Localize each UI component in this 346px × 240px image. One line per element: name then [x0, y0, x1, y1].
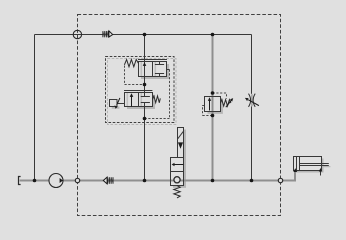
outer manifold dashed boundary: [78, 15, 281, 216]
cartridge V4 ball circle: [174, 177, 180, 183]
valve V1 flow arrowhead: [143, 62, 147, 66]
pump triangle: [60, 178, 63, 183]
wire: gray line through pressure relief valve: [212, 35, 214, 181]
cartridge V4 down triangle: [178, 142, 183, 148]
wire: main gray supply line tank->pump->cylinder: [20, 171, 295, 181]
shadow of pressure valve V3: [208, 99, 223, 114]
port circle bottom-left: [75, 178, 79, 182]
wire: cylinder rod-side port stub: [320, 171, 322, 175]
valve V2 divider: [138, 93, 140, 107]
cartridge V4 left arrow: [174, 164, 184, 166]
tank symbol: [19, 177, 21, 185]
valve V2 body: [125, 93, 153, 107]
node circle on boundary top-left: [73, 30, 81, 38]
valve V2 pilot diagonal arrow: [117, 98, 120, 105]
cylinder barrel: [294, 157, 322, 171]
pressure valve V3 adjust arrow: [226, 100, 232, 107]
junction dots: [33, 179, 37, 183]
valve V1 blocked port T bottom: [155, 74, 164, 77]
shadow of valve V1: [141, 64, 170, 79]
cartridge V4 divider: [171, 171, 184, 173]
pilot dashed line pressure valve top to spring: [213, 93, 227, 99]
shadow of cartridge valve V4: [173, 130, 186, 188]
valve V2 spring right: [153, 96, 161, 103]
valve V1 body: [139, 62, 167, 77]
pressure valve V3 flow arrow up: [209, 100, 211, 111]
pump circle: [49, 174, 63, 188]
valve V2 blocked port T bottom bar: [141, 102, 150, 104]
check valve on bottom bus: spring: [108, 177, 113, 183]
shadow of cylinder: [296, 159, 331, 173]
cylinder cap-side port arrow: [293, 168, 297, 172]
throttle valve arcs: [249, 94, 256, 107]
throttle adjust arrow: [248, 100, 259, 106]
pilot dashed line from V1 right port to lower center node: [146, 70, 170, 119]
wire: center vertical lower: [144, 103, 146, 181]
valve V2 flow arrow: [131, 95, 133, 107]
valve V2 proportional pilot square: [110, 100, 118, 107]
pilot dashed line from V1 spring side to center node: [125, 66, 143, 85]
valve V1 spring: [124, 60, 138, 67]
shadow of valve V2: [112, 95, 155, 109]
pressure relief valve V3 body: [205, 97, 221, 112]
wire: center vertical upper (through valve block): [144, 35, 146, 97]
valve V1 blocked port T top: [155, 62, 164, 65]
throttle valve mask: [249, 94, 256, 107]
valve V2 blocked port T top bar: [141, 96, 150, 98]
valve V1 (upper 2/2 valve) top plate line: [138, 59, 167, 61]
wire: left vertical x=35: [34, 35, 36, 181]
cylinder rod: [300, 164, 329, 166]
cylinder rod-side port arrow: [319, 168, 322, 172]
valve V1 divider: [152, 62, 154, 77]
shadow inside V1 (divider shadows): [141, 62, 157, 77]
shadow of inner manifold dashed box: [108, 59, 177, 125]
wire: right vertical through throttle: [251, 35, 253, 181]
cartridge V4 main body: [171, 158, 184, 186]
pilot stub from V1 right port: [167, 69, 170, 71]
cylinder piston: [297, 157, 300, 171]
throttle gray channel: [251, 94, 253, 106]
cartridge valve V4 solenoid box: [178, 128, 184, 158]
valve V2 (lower 2/2 valve) top plate line: [124, 90, 152, 92]
port circle bottom-right: [278, 178, 282, 182]
check valve on bottom bus: chevron: [103, 177, 107, 184]
cartridge V4 bottom spring: [174, 186, 180, 198]
check valve on top bus: spring: [103, 31, 108, 37]
wire: top bus y=34: [35, 34, 252, 36]
pilot dashed drain pressure valve left: [203, 106, 212, 116]
shadow inside V2 (divider shadows): [127, 93, 143, 107]
check valve on top bus: chevron: [109, 31, 113, 37]
cartridge V4 solenoid diagonal: [178, 131, 184, 138]
inner valve-block dashed boundary: [106, 57, 175, 123]
pressure valve V3 spring: [221, 100, 231, 107]
